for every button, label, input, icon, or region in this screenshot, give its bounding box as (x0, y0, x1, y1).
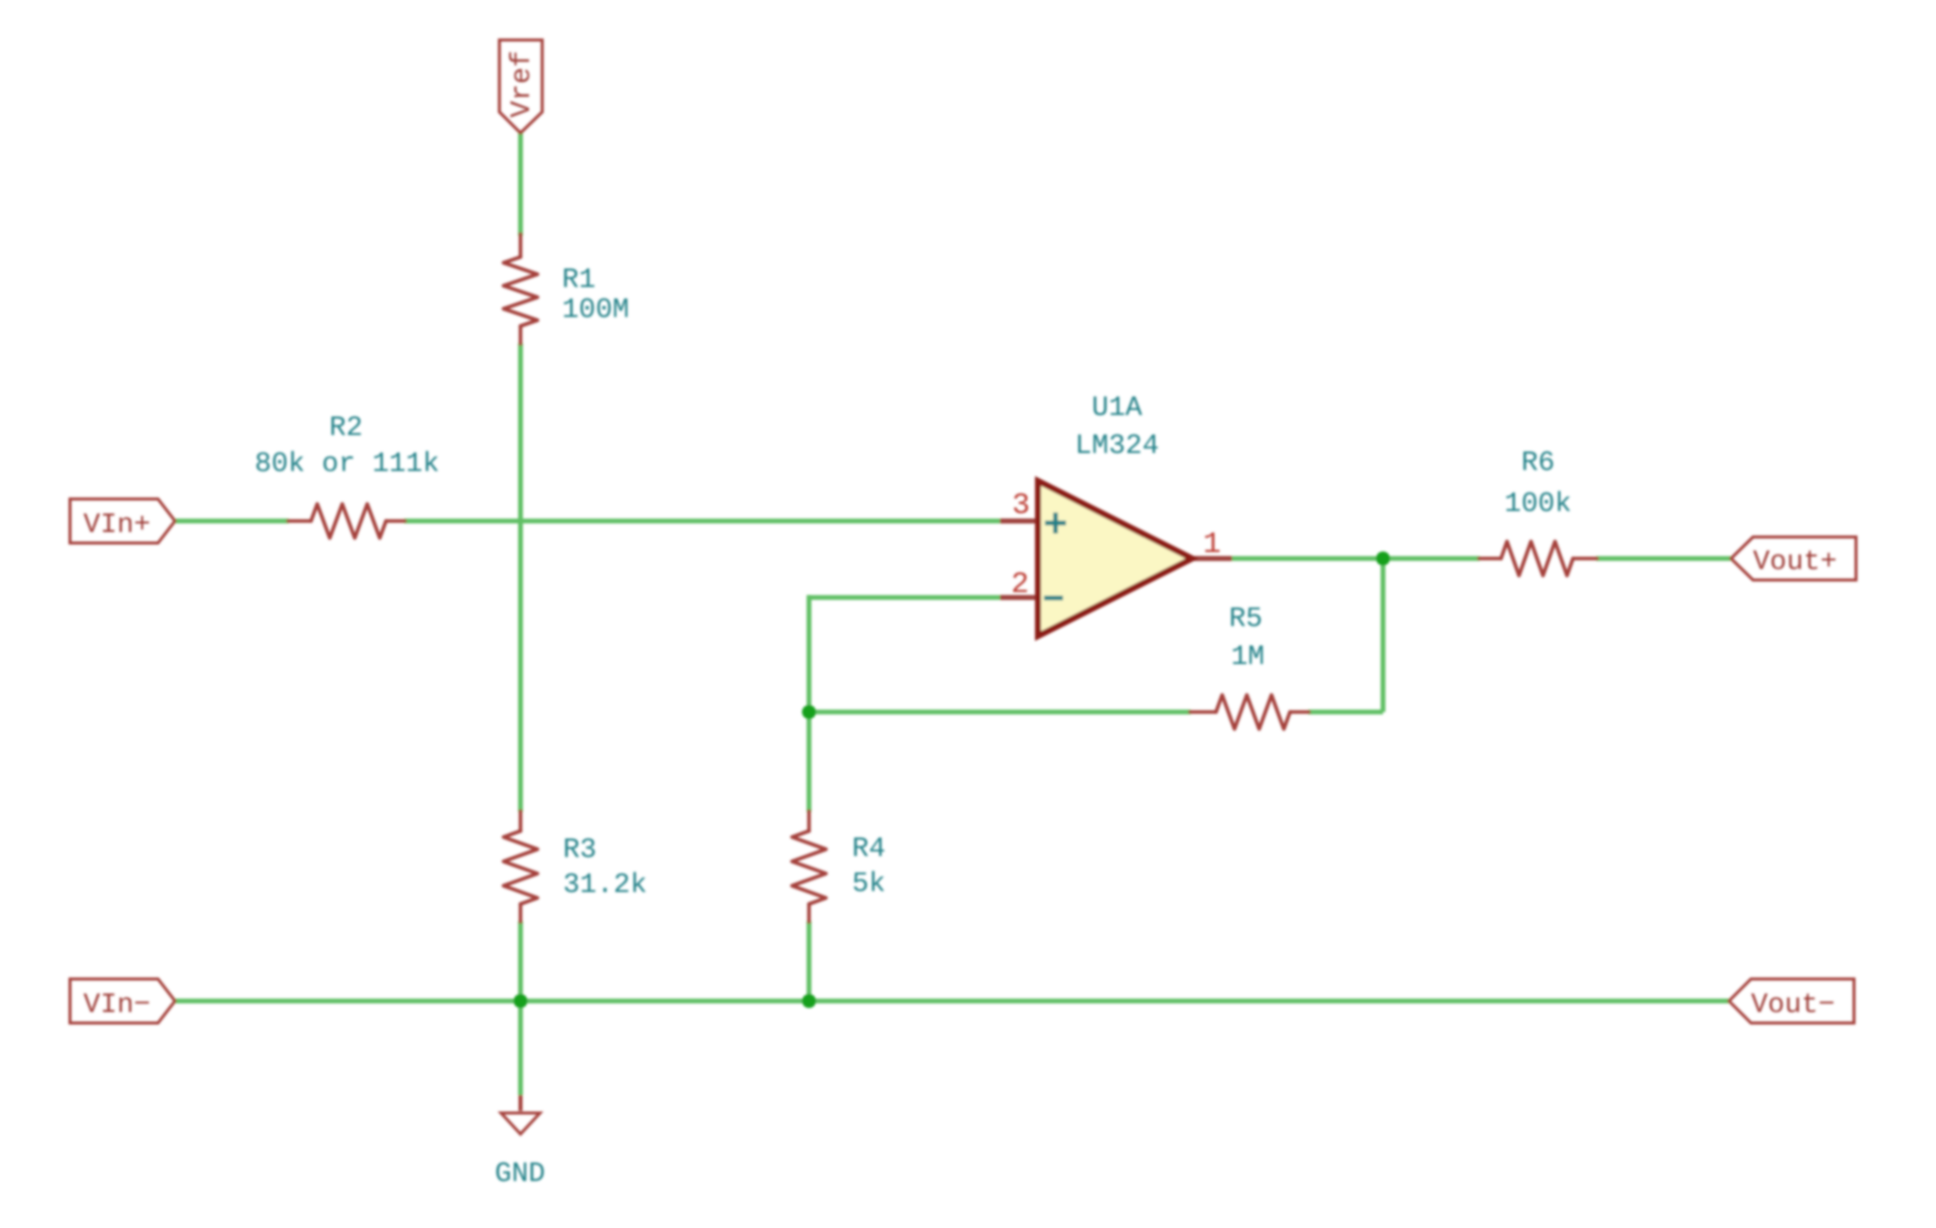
svg-text:1: 1 (1203, 528, 1221, 562)
wire node A to R4 (807, 712, 812, 812)
op-amp minus input marker (1044, 596, 1063, 601)
svg-text:100k: 100k (1504, 489, 1571, 520)
wire bottom rail (175, 999, 1729, 1004)
svg-text:2: 2 (1011, 568, 1029, 602)
global label Vout+ (1731, 537, 1856, 580)
wire R6 to Vout+ (1596, 556, 1731, 561)
global label VIn+ (70, 499, 175, 543)
resistor R4 (792, 811, 826, 922)
op-amp plus input marker (1045, 513, 1066, 534)
svg-text:R5: R5 (1229, 604, 1263, 635)
svg-text:R3: R3 (563, 835, 597, 866)
op-amp U1A reference label (1075, 393, 1159, 462)
svg-text:GND: GND (495, 1159, 545, 1190)
svg-text:LM324: LM324 (1075, 431, 1159, 462)
svg-text:Vout−: Vout− (1751, 990, 1835, 1021)
global label Vout- (1729, 979, 1854, 1023)
wire feedback vertical up (1381, 559, 1386, 713)
op-amp U1 pin 2 stub (1000, 595, 1041, 600)
wire VIn+ to R2 (175, 519, 289, 524)
wire pin 1 to R6 (1231, 556, 1480, 561)
wire Vref to R1 (518, 131, 523, 236)
svg-text:5k: 5k (852, 869, 886, 900)
wire R5 to corner (1308, 710, 1383, 715)
op-amp U1 pin 3 stub (1000, 519, 1041, 524)
svg-text:VIn+: VIn+ (83, 510, 150, 541)
ground (501, 1095, 540, 1134)
resistor R3 (504, 811, 538, 922)
op-amp U1 pin 1 stub (1189, 556, 1232, 561)
svg-text:R6: R6 (1521, 448, 1555, 479)
resistor R2 (288, 504, 405, 538)
wire R4 to bottom rail (807, 921, 812, 1001)
svg-text:VIn−: VIn− (83, 990, 150, 1021)
svg-text:R1: R1 (562, 265, 596, 296)
resistor R1 label (562, 265, 629, 326)
resistor R6 (1479, 542, 1597, 576)
junction at R3 / bottom rail (514, 994, 528, 1008)
svg-text:3: 3 (1012, 489, 1030, 523)
junction at R4 / bottom rail (802, 994, 816, 1008)
wire corner to op-amp pin 2 (809, 595, 1000, 600)
resistor R6 label (1504, 448, 1571, 520)
resistor R1 (504, 234, 538, 344)
wire bottom rail to GND (518, 1001, 523, 1095)
svg-text:100M: 100M (562, 295, 629, 326)
svg-text:Vref: Vref (507, 50, 538, 117)
svg-text:1M: 1M (1231, 642, 1265, 673)
wire node A vertical (807, 595, 812, 712)
resistor R5 label (1229, 604, 1265, 673)
op-amp U1A triangle (1038, 481, 1192, 636)
global label VIn- (70, 979, 175, 1023)
resistor R3 label (563, 835, 647, 901)
svg-text:31.2k: 31.2k (563, 870, 647, 901)
wire R2 to op-amp pin 3 (404, 519, 1000, 524)
global label Vref (499, 40, 542, 133)
resistor R2 label (255, 413, 440, 480)
junction output node (1376, 552, 1390, 566)
svg-text:U1A: U1A (1092, 393, 1143, 424)
resistor R4 label (852, 834, 886, 900)
svg-text:Vout+: Vout+ (1753, 547, 1837, 578)
svg-text:R4: R4 (852, 834, 886, 865)
resistor R5 (1190, 695, 1309, 729)
svg-text:80k or 111k: 80k or 111k (255, 449, 440, 480)
wire node A to R5 (809, 710, 1191, 715)
svg-text:R2: R2 (329, 413, 363, 444)
wire R3 to bottom rail (518, 921, 523, 1001)
junction node A (802, 705, 816, 719)
wire R1 to R3 vertical (518, 343, 523, 812)
